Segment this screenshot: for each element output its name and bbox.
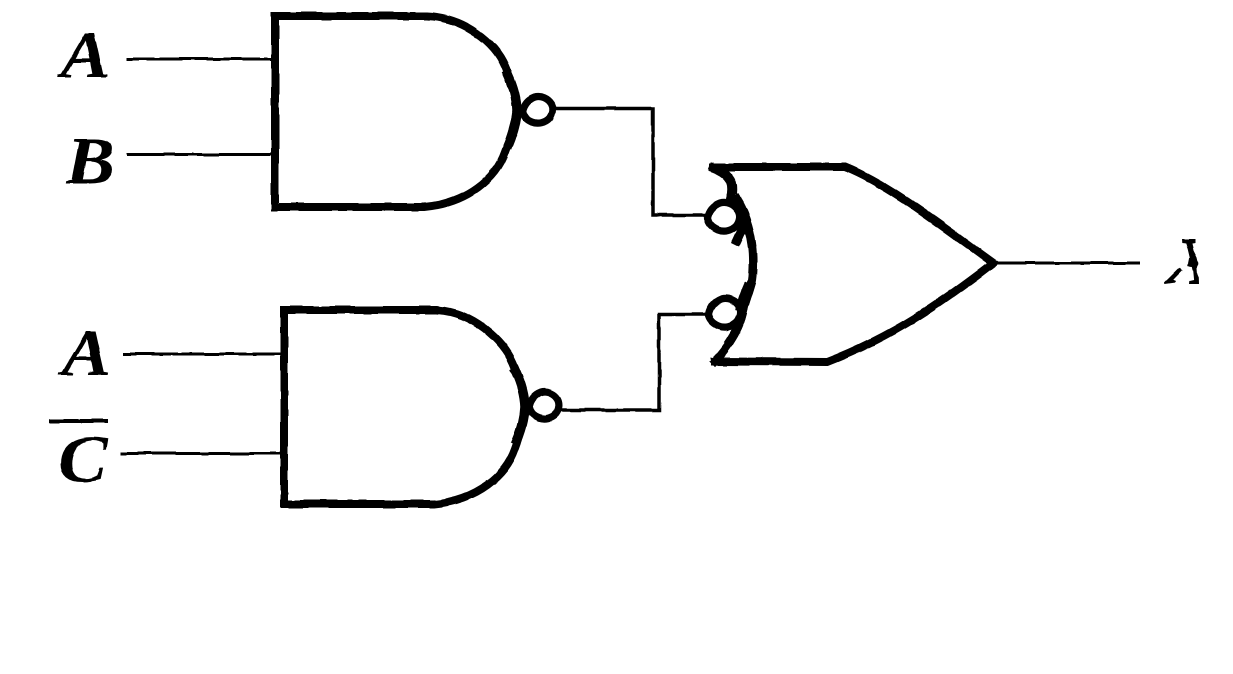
output label X (degraded glyph) (1164, 239, 1199, 284)
wire input C to U2 (122, 452, 281, 455)
wire U1 output to U3 input 1 (555, 109, 705, 216)
NAND gate U2 tip reinforcement (516, 372, 525, 440)
overline of C label (51, 419, 106, 423)
wire input A to U2 (124, 353, 281, 356)
wire input A to U1 (128, 58, 272, 61)
svg-text:B: B (65, 124, 115, 198)
wire U2 output to U3 input 2 (561, 315, 704, 411)
wire input B to U1 (128, 153, 272, 156)
OR gate U3 back edge overlap at bubble 1 (737, 199, 752, 243)
svg-text:A: A (57, 18, 110, 92)
OR gate U3 input bubble 2 (709, 298, 741, 327)
NAND gate U2 (bottom) body (284, 310, 525, 504)
svg-text:C: C (58, 423, 108, 497)
NAND gate U1 output bubble (523, 97, 553, 124)
OR gate U3 input bubble 1 (708, 202, 740, 231)
NAND gate U1 tip reinforcement (508, 75, 517, 143)
wire U3 output (994, 262, 1138, 265)
input label C (bottom NAND input 2, complemented) (58, 423, 108, 497)
NAND gate U1 (top) body (275, 16, 517, 207)
input label A (top NAND input 1) (57, 18, 110, 92)
svg-text:A: A (58, 316, 111, 390)
OR gate U3 body (713, 167, 993, 362)
input label B (top NAND input 2) (65, 124, 115, 198)
NAND gate U2 output bubble (529, 392, 559, 419)
input label A (bottom NAND input 1) (58, 316, 111, 390)
OR gate U3 back edge overlap at bubble 2 (730, 286, 751, 341)
